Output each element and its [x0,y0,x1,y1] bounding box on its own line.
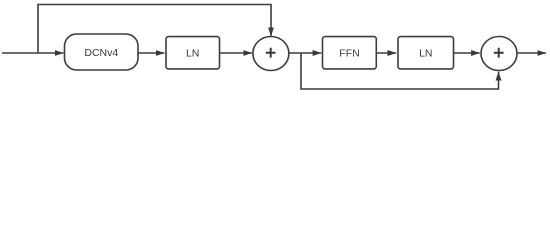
wire output line [517,52,546,54]
wire adder 1 to FFN [289,52,321,54]
svg-text:LN: LN [419,47,432,59]
wire top skip connection [38,5,271,54]
wire LN to adder 2 [454,52,480,54]
block LN second [398,37,454,69]
adder node 2 [481,37,517,71]
wire input line [2,52,64,54]
adder node 1 [253,37,289,71]
svg-text:DCNv4: DCNv4 [84,47,118,59]
svg-text:LN: LN [186,47,199,59]
block LN first [166,37,220,69]
wire DCNv4 to LN [138,52,165,54]
block DCNv4 [65,34,139,70]
wire FFN to LN second [376,52,396,54]
svg-text:FFN: FFN [339,47,359,59]
block FFN [323,37,377,69]
wire bottom skip connection [301,53,499,89]
wire LN to adder 1 [220,52,253,54]
